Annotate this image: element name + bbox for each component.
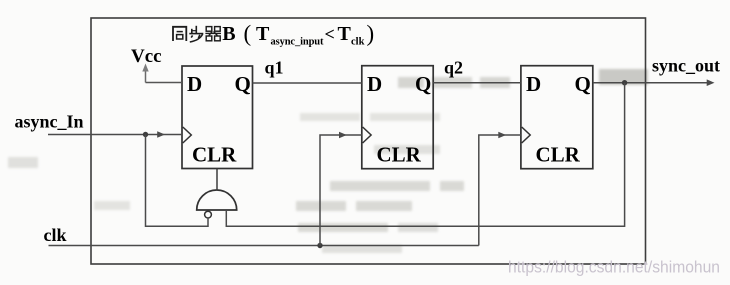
wire feedback sync_out to G1 input <box>226 83 624 227</box>
svg-text:async_In: async_In <box>15 112 84 132</box>
wire G1 output to U1 CLR <box>216 169 218 191</box>
svg-text:async_input: async_input <box>271 37 325 48</box>
arrowhead on U2 clock wire <box>339 132 347 139</box>
svg-text:q1: q1 <box>265 58 284 78</box>
svg-text:(: ( <box>244 21 252 46</box>
glyph 步 <box>189 26 203 42</box>
wire sync_out from U3 Q <box>593 82 712 84</box>
svg-text:Q: Q <box>575 72 591 96</box>
U1 clock input triangle <box>183 127 192 143</box>
module boundary box (synchronizer B) <box>91 18 646 264</box>
svg-text:D: D <box>187 72 202 96</box>
svg-text:clk: clk <box>44 225 67 245</box>
svg-text:clk: clk <box>351 37 365 48</box>
svg-text:T: T <box>338 23 352 45</box>
wire q1: U1 Q to U2 D <box>253 82 362 84</box>
svg-text:q2: q2 <box>444 58 463 78</box>
glyph 器 <box>205 27 221 41</box>
svg-text:Q: Q <box>235 72 251 96</box>
wire async_In to U1 clock <box>48 134 182 136</box>
wire clk to U2 clock <box>320 135 362 246</box>
svg-text:sync_out: sync_out <box>652 56 720 76</box>
junction on async_In wire <box>143 132 148 137</box>
U3 clock input triangle <box>522 127 531 143</box>
flip-flop U2 body <box>362 66 433 169</box>
arrowhead on sync_out wire <box>707 79 715 86</box>
svg-text:CLR: CLR <box>536 143 581 167</box>
glyph 同 <box>173 27 186 41</box>
U2 clock input triangle <box>363 127 372 143</box>
svg-text:https://blog.csdn.net/shimohun: https://blog.csdn.net/shimohun <box>508 259 720 277</box>
title label: 同步器B (T_async_input < T_clk) <box>173 21 374 48</box>
Vcc power symbol (up arrow) <box>142 64 148 83</box>
junction on sync_out wire <box>622 80 627 85</box>
wire clk trunk <box>49 245 479 247</box>
svg-text:CLR: CLR <box>377 143 422 167</box>
wire async_In branch to G1 inverted input <box>146 135 209 227</box>
svg-text:Vcc: Vcc <box>131 46 162 67</box>
svg-text:T: T <box>256 23 270 45</box>
svg-text:Q: Q <box>415 72 431 96</box>
wire q2: U2 Q to U3 D <box>433 82 521 84</box>
wire clk to U3 clock <box>479 135 521 246</box>
svg-text:D: D <box>526 72 541 96</box>
svg-text:CLR: CLR <box>192 143 237 167</box>
wire Vcc to U1 D <box>146 82 183 84</box>
arrowhead on async_In wire <box>157 131 165 138</box>
flip-flop U3 body <box>521 66 593 169</box>
arrowhead on U3 clock wire <box>498 132 506 139</box>
AND gate G1 (clear gate, dome up) <box>197 190 237 210</box>
svg-text:D: D <box>367 72 382 96</box>
G1 inverted-input bubble <box>205 211 212 218</box>
flip-flop U1 body <box>182 66 253 169</box>
svg-text:): ) <box>367 21 375 46</box>
svg-text:B: B <box>222 23 235 45</box>
svg-text:<: < <box>325 24 335 44</box>
junction on clk trunk <box>317 243 322 248</box>
